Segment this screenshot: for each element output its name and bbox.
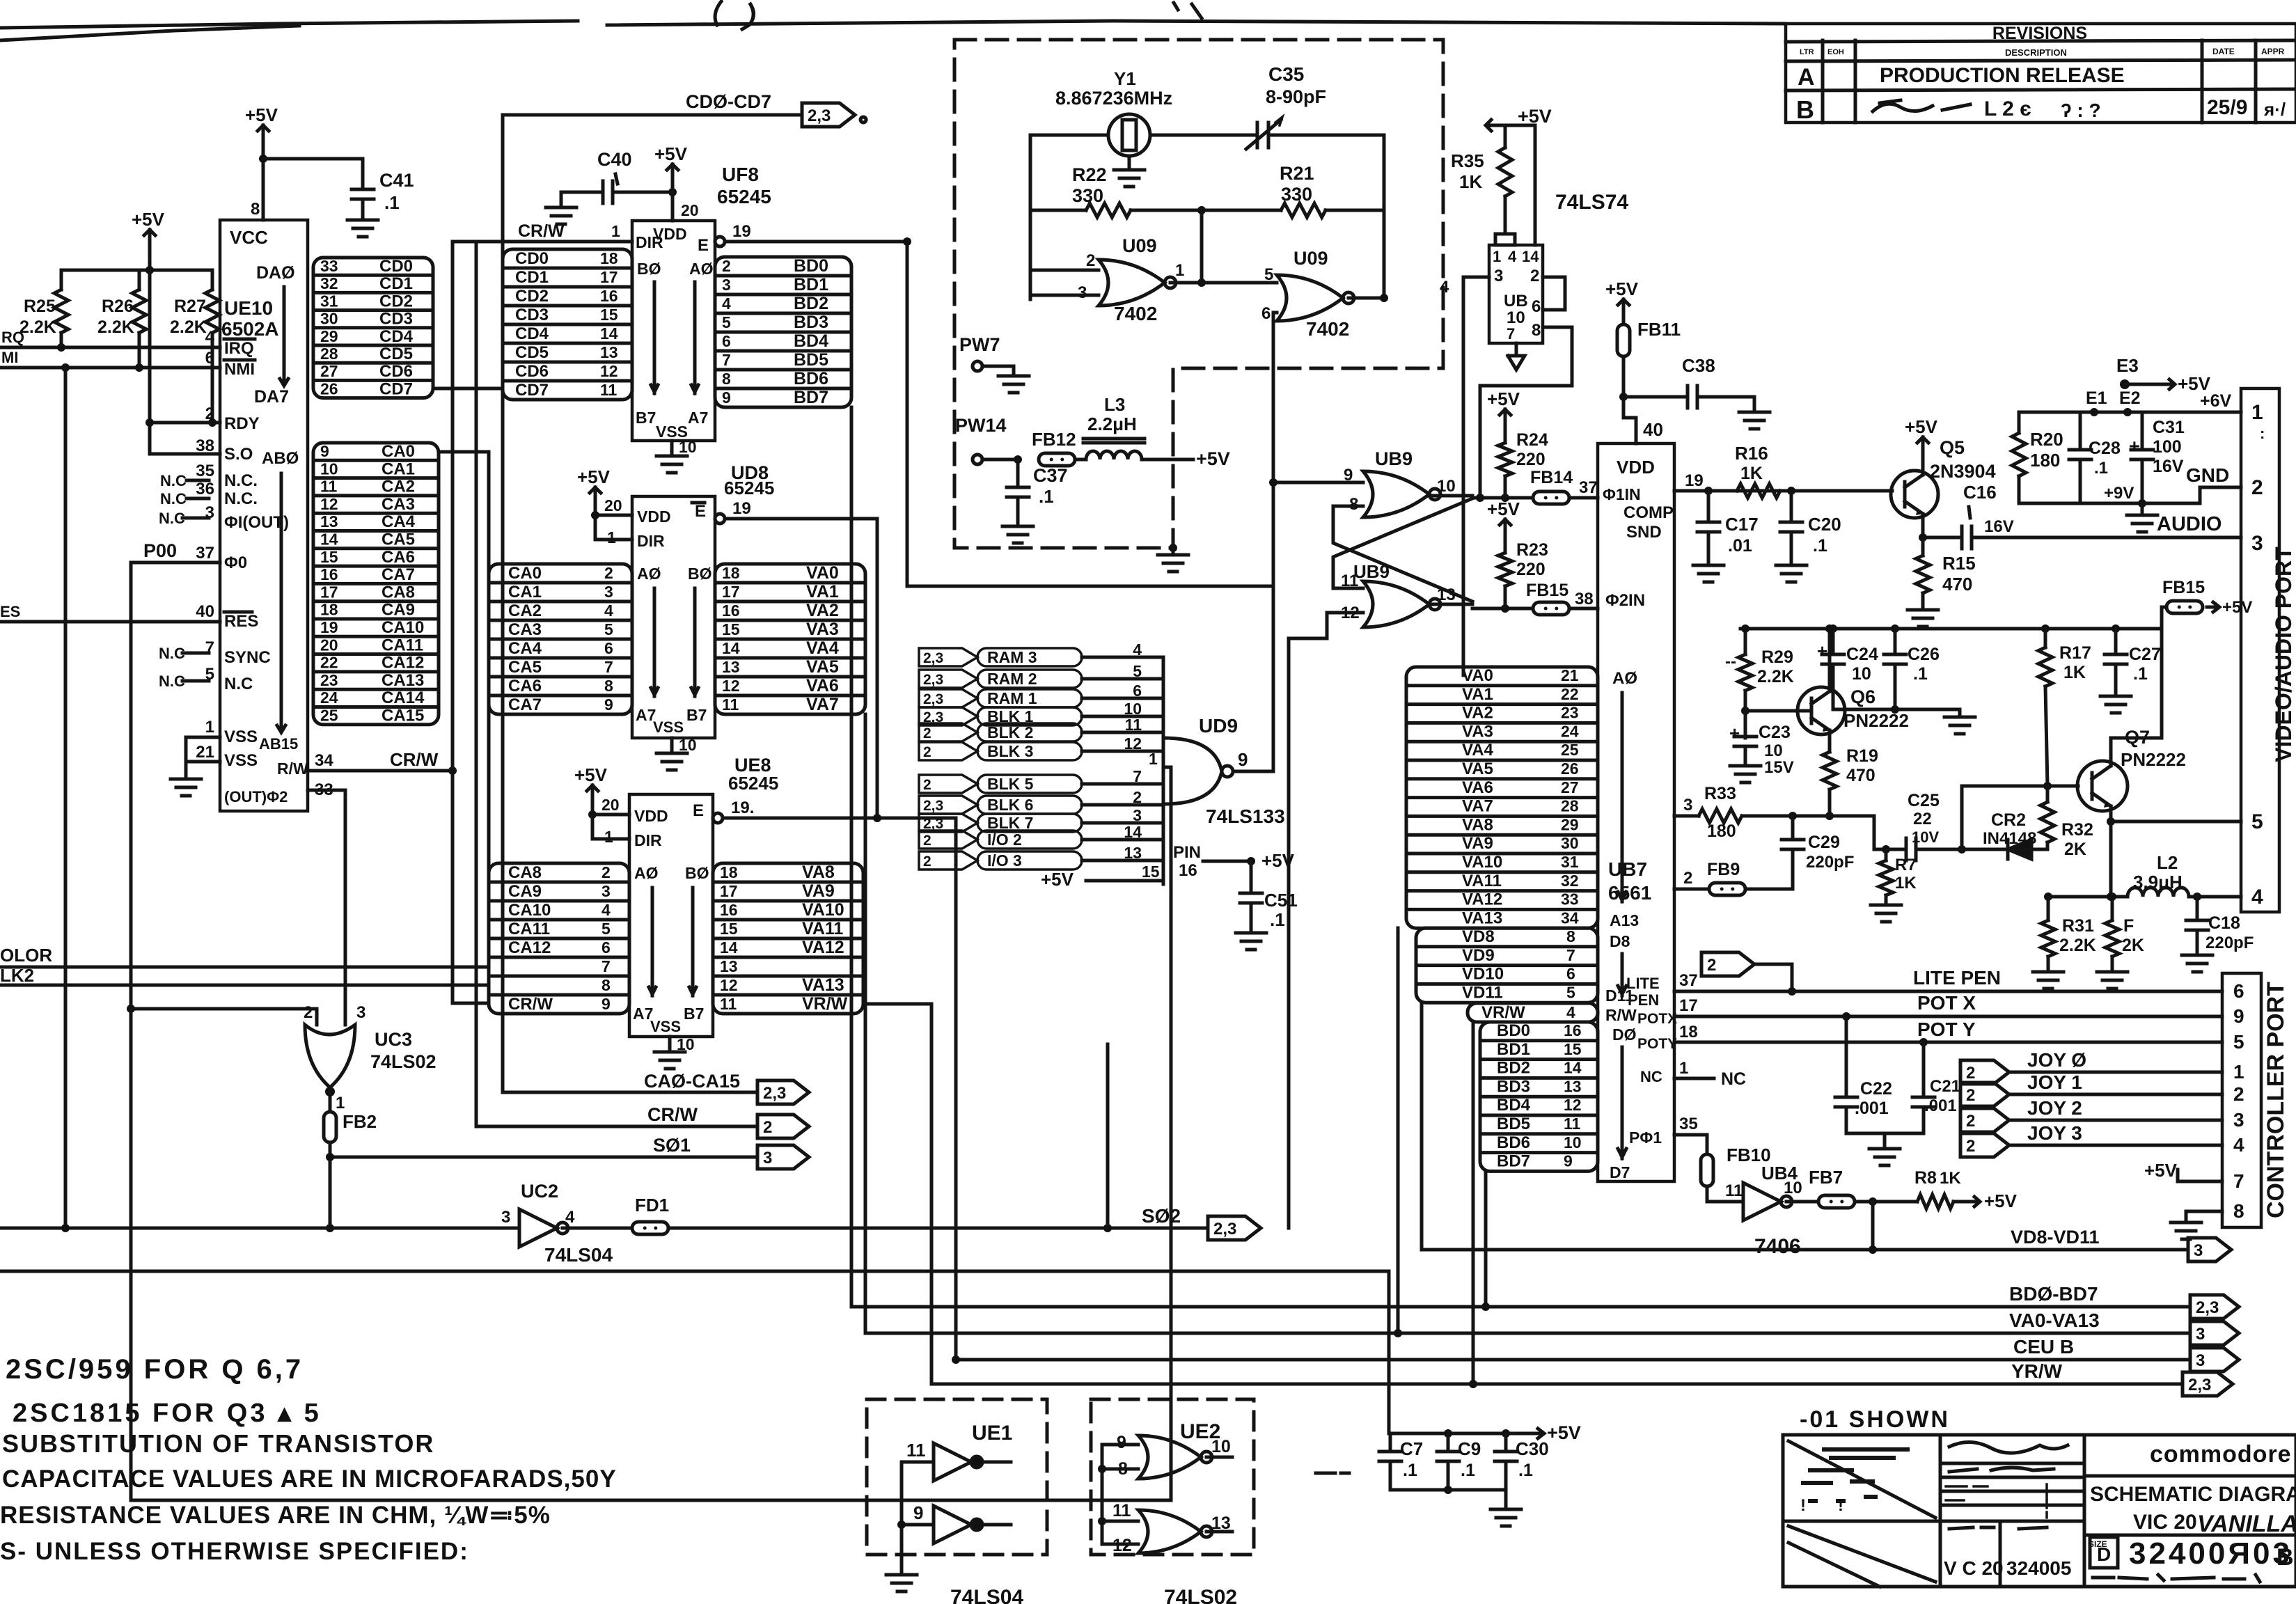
svg-text:BD6: BD6	[1497, 1133, 1530, 1152]
wire left rail x94	[61, 368, 70, 1232]
wire BD0-BD7 rail	[851, 1283, 2190, 1307]
svg-text:IN4148: IN4148	[1983, 829, 2036, 848]
svg-text:.001: .001	[1924, 1096, 1957, 1115]
top margin handwriting marks	[715, 1, 1202, 123]
svg-text:40: 40	[196, 602, 214, 621]
svg-text:18: 18	[720, 863, 738, 881]
osc ground at box bottom	[1158, 544, 1188, 572]
inverter UE1b	[902, 1502, 982, 1543]
VIC chip UB7 6561	[1598, 443, 1677, 1181]
wire Q6 base	[1741, 707, 1811, 715]
svg-text:VCC: VCC	[230, 227, 268, 248]
wire UE2b inputs	[1102, 1521, 1138, 1544]
wire POT Y	[1674, 1019, 2222, 1046]
svg-text:E2: E2	[2119, 388, 2141, 408]
svg-text:BD3: BD3	[794, 313, 828, 332]
svg-text:6: 6	[1261, 304, 1271, 323]
svg-text:VD8-VD11: VD8-VD11	[2011, 1227, 2100, 1248]
wire POT X	[1674, 992, 2222, 1021]
svg-text:2,3: 2,3	[923, 672, 943, 688]
svg-text:Φ2IN: Φ2IN	[1605, 591, 1645, 610]
svg-text:VIDEO/AUDIO PORT: VIDEO/AUDIO PORT	[2271, 547, 2296, 762]
svg-text:UC3: UC3	[375, 1029, 412, 1050]
trimmer capacitor C35	[1246, 63, 1326, 149]
svg-text:8: 8	[604, 677, 613, 695]
svg-text:13: 13	[722, 658, 740, 676]
svg-text:9: 9	[601, 995, 611, 1013]
crystal Y1	[1055, 68, 1172, 156]
svg-text:U09: U09	[1294, 248, 1328, 269]
inverter UC2 74LS04	[501, 1181, 613, 1266]
wire UD8 E pin19	[715, 499, 877, 818]
svg-text:ES: ES	[0, 603, 20, 620]
svg-text:10: 10	[1507, 308, 1525, 327]
svg-text:20: 20	[604, 496, 622, 514]
diode CR2	[1983, 810, 2047, 859]
bus arrow CA0-CA15	[503, 1071, 809, 1104]
buffer UF8 65245	[632, 164, 771, 441]
svg-text:CA7: CA7	[382, 565, 415, 584]
UD8 VSS ground	[656, 736, 697, 770]
svg-text:.001: .001	[1855, 1099, 1889, 1118]
svg-text:18: 18	[722, 564, 740, 582]
wire R/W from pin34	[308, 749, 453, 771]
bus arrow VD8-VD11	[2188, 1238, 2231, 1261]
UD9 pin16 and C51	[1173, 843, 1298, 950]
svg-text:1K: 1K	[2063, 663, 2086, 682]
svg-text:.1: .1	[1518, 1461, 1533, 1480]
svg-text:12: 12	[1564, 1096, 1582, 1114]
svg-text:I/O 3: I/O 3	[987, 851, 1022, 870]
N.C stubs	[159, 472, 209, 690]
svg-text:22: 22	[320, 654, 338, 672]
svg-text:L 2 є: L 2 є	[1984, 97, 2031, 120]
svg-text:+5V: +5V	[1487, 388, 1520, 409]
svg-text:10: 10	[1211, 1437, 1231, 1456]
svg-text:2: 2	[1707, 956, 1716, 975]
svg-text:C18: C18	[2208, 913, 2240, 933]
svg-text:BD6: BD6	[794, 369, 828, 388]
svg-text:1K: 1K	[1459, 171, 1482, 192]
svg-text:CD0: CD0	[379, 257, 413, 276]
wire RDY S.O	[146, 270, 220, 454]
svg-text:5: 5	[722, 313, 731, 331]
gate U09a 7402	[1078, 235, 1184, 324]
svg-text:PEN: PEN	[1628, 991, 1659, 1009]
svg-text:28: 28	[1561, 797, 1579, 815]
wire S02 vertical	[1106, 1044, 1110, 1228]
wire CD7 to buffer	[433, 387, 503, 391]
capacitor C24	[1817, 629, 1878, 709]
svg-text:11: 11	[1112, 1501, 1131, 1520]
svg-text:VANILLA: VANILLA	[2197, 1511, 2296, 1537]
svg-text:CA11: CA11	[382, 636, 423, 654]
svg-text:CA9: CA9	[382, 601, 415, 620]
svg-text:BLK 7: BLK 7	[987, 814, 1033, 832]
svg-text:CA10: CA10	[382, 618, 424, 637]
svg-text:VA9: VA9	[1462, 834, 1493, 853]
wire +5V long rail	[0, 1271, 1532, 1438]
svg-text:R17: R17	[2059, 643, 2091, 663]
transistor Q5 2N3904	[1891, 437, 1996, 518]
svg-text:PW7: PW7	[959, 334, 1000, 355]
svg-text:1: 1	[336, 1094, 345, 1112]
svg-text:VA4: VA4	[806, 638, 839, 658]
svg-text:JOY Ø: JOY Ø	[2027, 1049, 2086, 1071]
svg-text:SND: SND	[1626, 523, 1662, 542]
svg-text:4: 4	[601, 901, 611, 919]
svg-text:8-90pF: 8-90pF	[1266, 86, 1326, 107]
svg-text:UB: UB	[1504, 292, 1528, 310]
svg-text:R20: R20	[2030, 429, 2063, 450]
capacitor C20	[1776, 491, 1841, 582]
resistor R29	[1725, 624, 1794, 738]
svg-text:2,3: 2,3	[923, 650, 943, 666]
svg-text:CA13: CA13	[382, 671, 424, 690]
svg-text:9: 9	[722, 388, 731, 407]
svg-text:19: 19	[1685, 471, 1704, 490]
svg-text:8: 8	[2233, 1200, 2244, 1222]
UE1 label	[972, 1422, 1012, 1445]
svg-text:VR/W: VR/W	[802, 994, 848, 1014]
svg-text:15: 15	[600, 306, 618, 324]
svg-text:3: 3	[1133, 806, 1142, 824]
svg-text:+5V: +5V	[2144, 1160, 2178, 1181]
svg-text:36: 36	[196, 480, 214, 498]
svg-text:CA7: CA7	[508, 695, 542, 714]
svg-text:C17: C17	[1725, 514, 1759, 535]
capacitor C21	[1912, 1042, 1960, 1133]
wire VD riser	[1420, 1002, 1424, 1250]
svg-text:19: 19	[320, 618, 338, 636]
svg-text:4: 4	[1508, 248, 1517, 265]
svg-text:40: 40	[1643, 419, 1663, 440]
capacitor C22	[1835, 1016, 1892, 1133]
svg-text:23: 23	[320, 671, 338, 689]
resistor R33	[1699, 784, 1874, 849]
bus arrow CR/W	[476, 1104, 809, 1138]
svg-text:E: E	[693, 801, 704, 820]
svg-text:C41: C41	[379, 170, 414, 191]
wire CA0 to buffer bus	[439, 450, 489, 454]
wire VIC pin19 COMP	[1674, 471, 1708, 491]
svg-text:17: 17	[720, 882, 738, 900]
svg-text:я·/: я·/	[2263, 99, 2286, 120]
wire +5V dist rail	[1740, 607, 2167, 633]
svg-text:4: 4	[565, 1208, 575, 1227]
svg-text:14: 14	[600, 324, 618, 343]
svg-text:25/9: 25/9	[2207, 96, 2247, 119]
svg-text:6: 6	[722, 332, 731, 350]
svg-text:11: 11	[1125, 716, 1142, 734]
svg-text:BD0: BD0	[1497, 1021, 1530, 1040]
wire VA riser	[1394, 928, 1402, 1337]
wire UB9 cross-coupling	[1333, 496, 1472, 604]
svg-text:D7: D7	[1610, 1163, 1630, 1181]
svg-text:12: 12	[720, 976, 738, 994]
capacitor C26	[1884, 629, 1940, 709]
svg-text:VA8: VA8	[1462, 815, 1493, 834]
svg-text:AØ: AØ	[634, 864, 659, 882]
svg-text:Φ1IN: Φ1IN	[1603, 485, 1641, 503]
svg-text:18: 18	[1679, 1023, 1698, 1041]
svg-text:DIR: DIR	[634, 831, 662, 849]
svg-text:C16: C16	[1963, 482, 1997, 503]
resistor R25	[19, 270, 68, 347]
wire enable run	[903, 237, 1273, 586]
svg-text:VA2: VA2	[806, 601, 839, 620]
svg-text:CD3: CD3	[379, 310, 413, 329]
capacitor C38	[1619, 355, 1770, 429]
svg-text:LK2: LK2	[0, 965, 34, 986]
svg-text:4: 4	[604, 601, 613, 620]
svg-text:POT Y: POT Y	[1917, 1019, 1976, 1040]
svg-text:R/W: R/W	[277, 760, 308, 778]
svg-text:30: 30	[1561, 834, 1579, 852]
svg-text:11: 11	[906, 1440, 926, 1461]
svg-text:38: 38	[1575, 590, 1594, 608]
svg-text:25: 25	[320, 707, 338, 725]
svg-text:CR/W: CR/W	[390, 749, 439, 770]
svg-text:N.C: N.C	[160, 472, 187, 489]
svg-text:6561: 6561	[1608, 882, 1651, 904]
svg-text:R31: R31	[2062, 916, 2094, 936]
svg-text:20: 20	[601, 796, 620, 814]
resistor R21	[1202, 163, 1384, 217]
svg-text:65245: 65245	[728, 773, 778, 794]
wire VRW drop	[930, 1004, 934, 1384]
svg-text:6: 6	[601, 938, 611, 957]
svg-text:R15: R15	[1942, 553, 1976, 574]
wire UE8 E pin19	[713, 799, 956, 823]
svg-text:11: 11	[720, 995, 737, 1013]
svg-text:POTX: POTX	[1637, 1011, 1677, 1027]
svg-text:.1: .1	[2133, 664, 2148, 684]
svg-text:31: 31	[320, 292, 338, 310]
transistor Q6 PN2222	[1798, 686, 1909, 734]
svg-text:CD4: CD4	[515, 324, 549, 343]
svg-text:1: 1	[2251, 401, 2263, 424]
svg-text:10: 10	[677, 1035, 695, 1053]
svg-text:CD7: CD7	[515, 381, 549, 400]
svg-text:22: 22	[1561, 685, 1579, 703]
wire UE1 inputs ground	[886, 1462, 917, 1591]
svg-text:3: 3	[601, 882, 611, 900]
svg-text:CA4: CA4	[382, 512, 416, 531]
svg-text:Y1: Y1	[1114, 68, 1136, 89]
capacitors C7 C9 C30	[1379, 1433, 1549, 1526]
svg-text:+5V: +5V	[1196, 448, 1230, 469]
svg-text:JOY 3: JOY 3	[2027, 1122, 2082, 1144]
wire BD bus drop	[850, 407, 854, 1307]
wire UE2a inputs	[1098, 1445, 1138, 1544]
svg-text:POTY: POTY	[1637, 1036, 1677, 1052]
svg-text:4: 4	[2251, 886, 2263, 909]
svg-text:ʔ : ?: ʔ : ?	[2061, 100, 2101, 121]
svg-text:2: 2	[1683, 869, 1692, 888]
svg-text:L2: L2	[2157, 852, 2178, 873]
svg-text:+6V: +6V	[2200, 391, 2232, 411]
svg-text:2: 2	[722, 257, 731, 275]
svg-text:35: 35	[1679, 1115, 1698, 1133]
svg-text:2: 2	[1966, 1064, 1975, 1083]
svg-text:1: 1	[1149, 750, 1158, 768]
svg-text:3: 3	[2233, 1109, 2244, 1131]
svg-text:2N3904: 2N3904	[1930, 461, 1996, 482]
svg-text:B7: B7	[636, 409, 656, 427]
svg-text:24: 24	[1561, 722, 1579, 740]
gate UE2b 7402	[1112, 1501, 1231, 1555]
buffer UD8 65245	[632, 462, 774, 738]
bus arrow S01	[329, 1135, 809, 1169]
svg-text:32400Я03: 32400Я03	[2129, 1536, 2293, 1571]
svg-text:A7: A7	[688, 409, 708, 427]
svg-text:VA5: VA5	[1462, 760, 1493, 778]
svg-text:N.C: N.C	[160, 490, 187, 508]
gate U09b 7402	[1261, 248, 1449, 340]
svg-text:.01: .01	[1728, 536, 1752, 556]
svg-text:JOY 2: JOY 2	[2027, 1097, 2082, 1119]
svg-text:R32: R32	[2061, 820, 2093, 840]
svg-text:20: 20	[681, 201, 699, 219]
svg-text:12: 12	[600, 362, 618, 380]
svg-text:11: 11	[1725, 1181, 1743, 1200]
svg-text:C20: C20	[1808, 514, 1841, 535]
bus arrow CD0-CD7	[503, 91, 855, 127]
svg-text:CA9: CA9	[508, 882, 542, 901]
svg-text:2: 2	[1133, 788, 1142, 806]
svg-text:CA6: CA6	[508, 677, 542, 695]
svg-text:74LS04: 74LS04	[544, 1244, 613, 1266]
svg-text:VA13: VA13	[802, 975, 844, 995]
svg-text:N.C.: N.C.	[224, 471, 258, 490]
svg-text:BD2: BD2	[794, 294, 828, 313]
svg-text:VD9: VD9	[1462, 946, 1495, 965]
svg-text:2,3: 2,3	[2196, 1298, 2219, 1317]
svg-text:APPR: APPR	[2261, 47, 2285, 56]
svg-text:12: 12	[722, 677, 740, 695]
svg-text:+5V: +5V	[1041, 869, 1074, 890]
gate UB9a 7402	[1344, 448, 1456, 517]
svg-text:R27: R27	[174, 297, 206, 316]
svg-text:+5V: +5V	[1984, 1190, 2018, 1211]
UD9 pin1 wire	[1149, 750, 1171, 768]
UE8 VSS ground	[654, 1035, 695, 1069]
wire R16 row	[1704, 487, 1892, 495]
svg-text:2: 2	[1966, 1086, 1975, 1105]
+5V R35	[1486, 106, 1552, 131]
svg-text:YR/W: YR/W	[2011, 1360, 2063, 1382]
svg-text:27: 27	[1561, 778, 1579, 796]
svg-text:12: 12	[1124, 734, 1142, 753]
svg-text:10: 10	[320, 459, 338, 478]
+5V Q5	[1905, 416, 1938, 475]
svg-text:F: F	[2123, 916, 2134, 936]
svg-text:+: +	[1817, 640, 1827, 661]
svg-text:PW14: PW14	[955, 415, 1007, 436]
svg-text:16V: 16V	[1984, 517, 2014, 536]
svg-text:2SC/959 FOR Q 6,7: 2SC/959 FOR Q 6,7	[6, 1354, 304, 1385]
wire PW14	[955, 415, 1022, 464]
svg-text:CD0: CD0	[515, 249, 549, 268]
wire BD riser	[1481, 1171, 1490, 1311]
svg-text:PΦ1: PΦ1	[1629, 1129, 1662, 1147]
UF8 VSS ground	[656, 438, 697, 473]
svg-text:8.867236MHz: 8.867236MHz	[1055, 88, 1172, 109]
svg-text:CR/W: CR/W	[647, 1104, 698, 1125]
resistor R19	[1823, 730, 1878, 820]
svg-text:+5V: +5V	[577, 466, 611, 487]
+5V UE8 and DIR tie	[574, 764, 629, 846]
wire port pin8 ground	[2171, 1211, 2222, 1239]
svg-text:65245: 65245	[717, 186, 771, 207]
svg-text:VA0-VA13: VA0-VA13	[2009, 1310, 2100, 1331]
resistor R22	[1030, 164, 1206, 217]
VIC VA0-VA13 ladder	[1406, 666, 1598, 928]
svg-text:C27: C27	[2129, 645, 2161, 664]
svg-text:.1: .1	[1461, 1461, 1475, 1480]
+5V R24	[1487, 388, 1520, 420]
svg-text:3.9μH: 3.9μH	[2133, 872, 2183, 893]
svg-text:CA10: CA10	[508, 901, 551, 920]
svg-text:1K: 1K	[1940, 1169, 1961, 1188]
svg-text:+: +	[1729, 723, 1740, 744]
svg-text:BD5: BD5	[794, 350, 828, 370]
svg-text:FD1: FD1	[635, 1195, 669, 1216]
wire phi0 run	[131, 767, 1171, 1500]
gate UC3 74LS02	[304, 1003, 437, 1112]
svg-text:E3: E3	[2116, 355, 2139, 376]
svg-text:9: 9	[913, 1502, 923, 1523]
svg-text:C26: C26	[1908, 645, 1940, 664]
svg-text:VA12: VA12	[802, 938, 844, 957]
capacitor C40	[546, 149, 677, 224]
svg-text:BD1: BD1	[1497, 1040, 1530, 1059]
svg-text:VA5: VA5	[806, 657, 839, 677]
svg-text:3: 3	[2196, 1351, 2205, 1370]
revisions table	[1786, 24, 2296, 124]
svg-text:2: 2	[2251, 476, 2263, 499]
bus arrow 2 to lite pen	[1701, 952, 1796, 996]
svg-text:3: 3	[1683, 796, 1692, 815]
svg-text:2.2K: 2.2K	[97, 317, 134, 337]
svg-text:14: 14	[1522, 248, 1539, 265]
svg-text:24: 24	[320, 689, 338, 707]
svg-text:VA1: VA1	[1462, 685, 1493, 704]
svg-text:CA11: CA11	[508, 920, 550, 938]
svg-text:LITE PEN: LITE PEN	[1913, 967, 2001, 989]
svg-text:C25: C25	[1908, 791, 1940, 810]
svg-text:+5V: +5V	[245, 104, 278, 125]
svg-text:R25: R25	[24, 297, 56, 316]
svg-text:.1: .1	[1403, 1461, 1417, 1480]
wire Q6 collector	[1825, 624, 1834, 691]
svg-text:19: 19	[732, 499, 751, 518]
wire +6V row	[2019, 388, 2241, 416]
resistor R8	[1914, 1168, 2018, 1211]
svg-text:commodore: commodore	[2150, 1441, 2292, 1468]
svg-text:-01 SHOWN: -01 SHOWN	[1800, 1406, 1950, 1433]
svg-text:19: 19	[732, 222, 751, 241]
VIC BD0-BD7 ladder	[1480, 1021, 1598, 1171]
svg-text:VA13: VA13	[1462, 909, 1502, 927]
svg-text:10: 10	[1564, 1133, 1582, 1151]
svg-text:BD7: BD7	[1497, 1152, 1530, 1171]
svg-text:9: 9	[2233, 1005, 2244, 1027]
resistor R26	[97, 270, 146, 368]
svg-text:SUBSTITUTION OF TRANSISTOR: SUBSTITUTION OF TRANSISTOR	[2, 1429, 434, 1458]
controller port label	[2263, 982, 2289, 1218]
